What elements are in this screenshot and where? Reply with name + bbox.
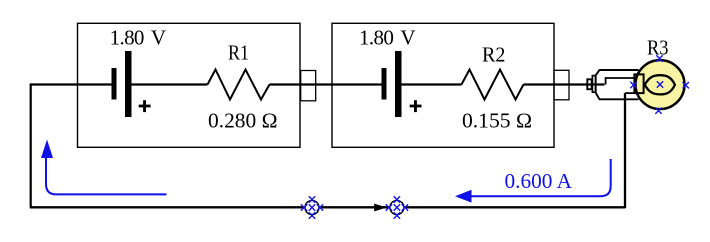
svg-text:1.80 V: 1.80 V	[359, 26, 416, 50]
terminal socket of box 1	[301, 71, 316, 101]
svg-text:1.80 V: 1.80 V	[110, 26, 167, 50]
svg-text:0.155 Ω: 0.155 Ω	[462, 108, 532, 132]
connector J2 (bottom wire node)	[390, 201, 404, 215]
lamp R3 bulb globe (yellow)	[636, 60, 685, 109]
current arrow left (blue)	[41, 140, 167, 195]
wire: bottom return	[30, 206, 626, 208]
wire: battery B2 positive to resistor R2	[402, 83, 462, 85]
resistor R1 zigzag	[208, 70, 270, 100]
battery B1 positive plate	[125, 51, 132, 117]
selection handles of connector J2 (blue x marks)	[386, 196, 408, 218]
lamp R3 tip contact	[587, 79, 591, 89]
svg-text:R3: R3	[647, 35, 669, 59]
lamp R3 filament lens	[645, 75, 675, 94]
subcircuit box 2 (battery B2 + resistor R2 enclosure)	[332, 23, 554, 147]
battery B1 negative plate	[112, 68, 117, 100]
wire: left vertical return	[30, 84, 32, 208]
wire: battery B1 positive to resistor R1	[132, 83, 208, 85]
battery B1 polarity + sign	[139, 100, 151, 112]
selection handles of connector J1 (blue x marks)	[301, 196, 323, 218]
lamp R3 inner top contact path	[606, 78, 635, 85]
subcircuit box 1 (battery B1 + resistor R1 enclosure)	[78, 23, 301, 147]
svg-text:0.600 A: 0.600 A	[505, 169, 573, 193]
battery B2 negative plate	[382, 68, 387, 100]
battery B2 polarity + sign	[410, 100, 422, 112]
svg-text:R2: R2	[482, 43, 506, 67]
battery B2 positive plate	[395, 51, 402, 117]
current arrow right (blue)	[455, 159, 611, 203]
lamp R3 base body (chamfered left)	[596, 70, 639, 99]
lamp R3 base collar	[592, 76, 595, 93]
resistor R2 zigzag	[462, 70, 524, 100]
wire: resistor R1 to battery B2 negative	[270, 83, 382, 85]
wire: resistor R2 to lamp R3	[524, 83, 605, 85]
connector J1 (bottom wire node)	[305, 201, 319, 215]
svg-text:0.280 Ω: 0.280 Ω	[208, 108, 278, 132]
lamp R3 inner contact block	[634, 74, 643, 93]
current direction arrowhead (black, on bottom wire)	[374, 204, 387, 212]
wire: top-left horizontal (node A to battery B1 negative)	[30, 83, 112, 85]
selection handles of lamp R3 (blue x marks)	[630, 55, 689, 114]
wire: lamp R3 down lead	[624, 93, 626, 208]
terminal socket of box 2	[554, 70, 569, 100]
svg-text:R1: R1	[228, 41, 249, 65]
lamp R3 inner bottom contact path	[625, 92, 635, 94]
